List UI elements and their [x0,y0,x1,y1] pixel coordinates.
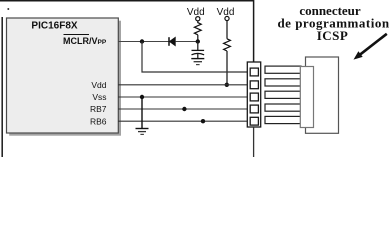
ground (C1) [191,59,204,65]
pin Vdd [91,80,106,90]
junction RB7 [182,107,186,111]
power Vdd label 1 [187,7,205,18]
connector J1 pin 3 [250,93,258,101]
resistor R1 [194,21,201,35]
connector J1 header body [247,62,260,127]
wire RB6 (U1 to connector pin 5) [118,120,250,122]
pin MCLR/VPP [63,35,107,47]
ground (Vss) [136,129,149,135]
annotation arrow to connector [354,34,387,60]
label PIC16F8X [31,21,77,32]
wire RB7 (U1 to connector pin 4) [118,108,250,110]
IC U1 PIC16F8X [7,18,122,136]
svg-text:ICSP: ICSP [317,28,349,43]
resistor R2 [224,39,231,51]
wire R2 to Vdd net [226,51,228,85]
pin Vss [92,92,106,102]
svg-text:RB6: RB6 [90,116,107,126]
wire node to C1 [197,42,199,51]
wire R1 to node [197,35,199,42]
junction MCLR / pin1 branch [140,39,144,43]
wire terminal to R2 [226,21,228,39]
label connecteur de programmation ICSP [277,3,389,43]
junction RB6 [201,119,205,123]
terminal Vdd 1 [196,17,200,21]
junction node MCLR/R1/C1 [196,39,200,43]
plug P1 body [300,67,313,128]
svg-text:PIC16F8X: PIC16F8X [31,21,77,32]
capacitor C1 [192,50,205,58]
connector J1 pin 1 [250,68,258,76]
pin RB6 [90,116,107,126]
plug P1 finger 3 [265,91,301,98]
wire MCLR from U1 to diode [118,41,169,43]
plug P1 housing [306,57,339,133]
connector J1 pin 2 [250,81,258,89]
wire Vss (U1 to connector pin 3) [118,96,250,98]
wire top rail to connector pin 1 header [0,1,254,62]
svg-text:Vss: Vss [92,92,106,102]
plug P1 finger 4 [265,104,301,111]
junction R2 / Vdd wire [225,83,229,87]
connector J1 pin 4 [250,105,258,113]
connector J1 pin 5 [250,117,258,125]
svg-text:Vdd: Vdd [91,80,106,90]
terminal Vdd 2 [225,16,229,20]
diode D1 [169,37,175,46]
pin RB7 [90,104,107,114]
plug P1 finger 2 [265,79,301,86]
plug P1 finger 1 [265,66,301,73]
svg-text:RB7: RB7 [90,104,107,114]
svg-text:Vdd: Vdd [187,7,205,18]
wire pin1 branch (MCLR to connector pin 1) [142,42,250,73]
power Vdd label 2 [217,7,235,18]
wire Vss to ground [141,97,143,128]
wire diode to node [175,41,197,43]
junction Vss / ground branch [140,95,144,99]
plug P1 finger 5 [265,116,301,123]
wire Vdd (U1 to connector pin 2) [118,84,250,86]
wire connector bottom [253,127,255,157]
